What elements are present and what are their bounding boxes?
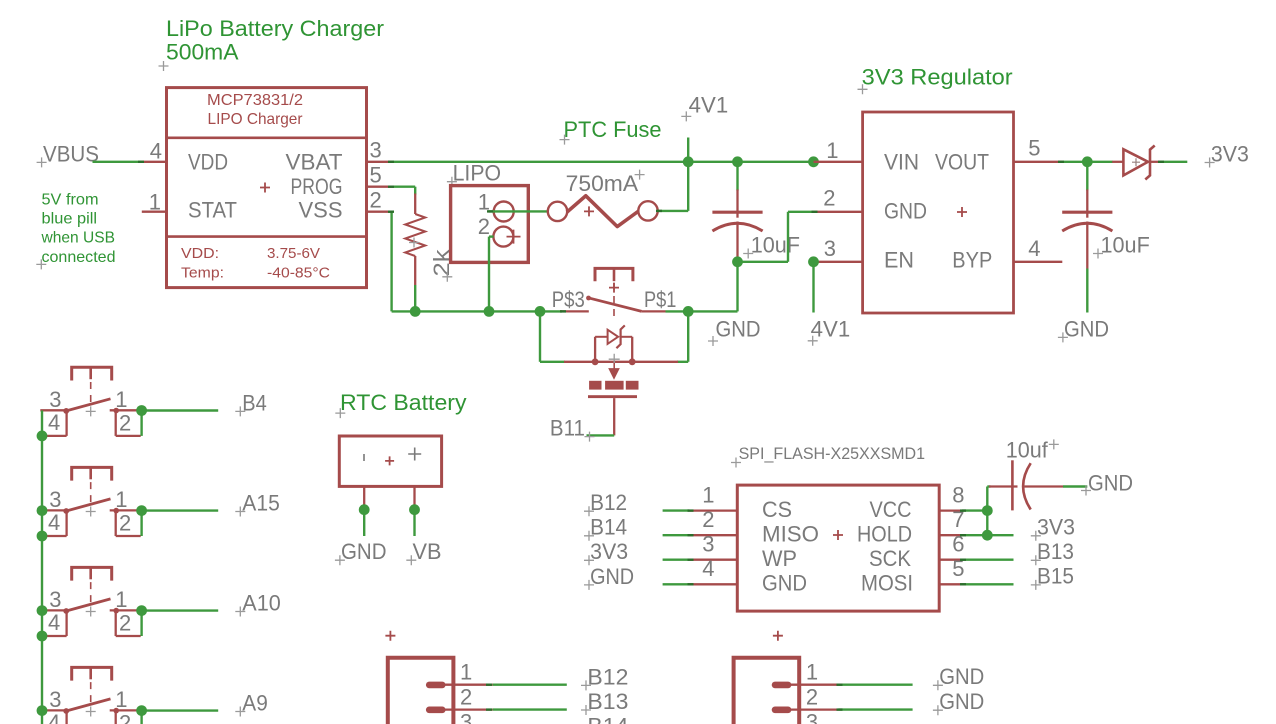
svg-text:P$3: P$3 bbox=[552, 287, 585, 312]
flash U3 box bbox=[737, 485, 939, 611]
resistor R1 2k bbox=[414, 194, 416, 215]
switch B4 pin 4 link bbox=[65, 410, 67, 436]
wire GND bus bbox=[390, 212, 392, 312]
node junction bus B4 pin4 bbox=[37, 431, 48, 442]
svg-text:GND: GND bbox=[939, 689, 984, 714]
svg-text:2: 2 bbox=[119, 710, 131, 724]
wire end marks (dark green connection points) bbox=[138, 161, 144, 163]
svg-text:VBUS: VBUS bbox=[43, 141, 99, 166]
BT1 pin leads bbox=[363, 486, 365, 505]
switch B4 dashed actuator bbox=[90, 382, 92, 406]
svg-text:GND: GND bbox=[884, 198, 927, 223]
node junction LIPO2/bus bbox=[484, 306, 495, 317]
svg-text:VB: VB bbox=[413, 539, 442, 564]
wire B14 to U3 pin 2 bbox=[663, 534, 690, 536]
U1 pin 5 PROG stub bbox=[367, 186, 392, 188]
op-amp-style IC U1 MCP73831/2 LIPO Charger box bbox=[167, 88, 367, 288]
svg-text:1: 1 bbox=[115, 587, 127, 612]
capacitor C2 plates bbox=[1062, 211, 1112, 214]
svg-text:2: 2 bbox=[460, 684, 472, 709]
switch A15 dashed actuator bbox=[90, 482, 92, 506]
U3 pin 5 stub bbox=[939, 583, 962, 585]
Q1 node dot left bbox=[592, 358, 599, 365]
wire BT1 VB pin down bbox=[413, 506, 415, 536]
svg-text:B13: B13 bbox=[1037, 539, 1074, 564]
node junction EN bbox=[808, 256, 819, 267]
svg-text:VDD: VDD bbox=[188, 149, 228, 174]
svg-text:VOUT: VOUT bbox=[935, 149, 989, 174]
U2 pin 3 EN stub bbox=[818, 261, 863, 263]
svg-text:2: 2 bbox=[478, 214, 490, 239]
svg-text:P$1: P$1 bbox=[644, 287, 676, 312]
wire HOLD pin7 to 3V3 label bbox=[962, 534, 1014, 536]
svg-text:1: 1 bbox=[806, 660, 818, 685]
svg-text:3: 3 bbox=[49, 387, 61, 412]
switch A10 lever bbox=[66, 599, 110, 611]
wire C2 to GND label bbox=[1086, 269, 1088, 313]
wire B4 pin1-pin2 tie bbox=[140, 411, 142, 436]
svg-text:BYP: BYP bbox=[952, 248, 992, 273]
svg-text:MOSI: MOSI bbox=[861, 571, 913, 596]
capacitor C3 curved plate bbox=[1023, 463, 1031, 509]
LIPO pin 2 circle bbox=[493, 227, 513, 247]
node junction B4 pin1 bbox=[136, 405, 147, 416]
connector box bbox=[388, 658, 454, 724]
switch A15 lever bbox=[66, 499, 110, 511]
Q1 substrate arrow bbox=[613, 363, 615, 369]
node junction BT1 VB pin bbox=[409, 504, 420, 515]
svg-text:EN: EN bbox=[884, 248, 914, 273]
svg-text:MCP73831/2: MCP73831/2 bbox=[207, 92, 303, 109]
U3 pin 7 stub bbox=[939, 534, 962, 536]
switch A15 origin cross bbox=[86, 507, 96, 517]
wire C1 bottom to GND corner bbox=[736, 258, 738, 311]
Q1 body diode zener bar bbox=[616, 325, 624, 348]
svg-text:3: 3 bbox=[370, 138, 382, 163]
svg-text:MISO: MISO bbox=[762, 521, 819, 546]
diode D1 cathode bar with hooks bbox=[1145, 146, 1154, 180]
node junction A15 pin1 bbox=[136, 505, 147, 516]
svg-text:GND: GND bbox=[1088, 471, 1133, 496]
svg-text:750mA: 750mA bbox=[566, 171, 639, 196]
svg-text:3V3: 3V3 bbox=[1211, 142, 1249, 167]
node junction A9 pin1 bbox=[136, 705, 147, 716]
svg-text:2: 2 bbox=[119, 410, 131, 435]
wire VCC node up to C3 bbox=[986, 487, 988, 511]
svg-text:B14: B14 bbox=[587, 714, 628, 724]
node junction bus A9 pin3 bbox=[37, 705, 48, 716]
node junction A10 pin1 bbox=[136, 605, 147, 616]
switch A9 pin 3 line bbox=[40, 709, 66, 711]
svg-text:2: 2 bbox=[119, 510, 131, 535]
wire LIPO pin2 down to GND bus bbox=[489, 235, 494, 237]
connector pin 2 stub bbox=[790, 708, 838, 710]
node junction bus A10 pin4 bbox=[37, 631, 48, 642]
switch A10 pin 1 line bbox=[110, 609, 141, 611]
node junction 4V1/C1 bbox=[732, 156, 743, 167]
regulator U2 box bbox=[863, 112, 1014, 313]
node junction P$1 bbox=[683, 306, 694, 317]
wire C3 to GND label bbox=[1063, 485, 1087, 487]
wire P$1 to junction bbox=[666, 310, 689, 312]
wire A15 pin1-pin2 tie bbox=[140, 511, 142, 536]
wire BT1 GND pin down bbox=[363, 506, 365, 536]
svg-text:-40-85°C: -40-85°C bbox=[267, 266, 330, 282]
connector pin 2 bar bbox=[775, 706, 788, 713]
Q1 origin cross bbox=[609, 354, 620, 365]
svg-text:1: 1 bbox=[702, 483, 714, 508]
BT1 plus symbol bbox=[408, 448, 421, 461]
wire P$3 drop to Q1 bbox=[539, 311, 541, 361]
svg-text:B4: B4 bbox=[242, 390, 266, 415]
svg-text:4V1: 4V1 bbox=[811, 317, 851, 342]
switch B4 pin 2 link bbox=[115, 410, 117, 436]
switch A9 bracket bbox=[72, 667, 112, 680]
diode D1 anode lead bbox=[1112, 161, 1123, 163]
wire SCK pin6 to B13 label bbox=[962, 559, 1014, 561]
connector pin 2 stub bbox=[445, 708, 493, 710]
fuse F1 left circle bbox=[548, 202, 567, 221]
connector pin 1 stub bbox=[790, 684, 838, 686]
svg-text:SCK: SCK bbox=[869, 546, 911, 571]
Q1 body diode loop bbox=[594, 337, 596, 362]
U1 pin 4 VDD stub bbox=[142, 161, 167, 163]
svg-text:A10: A10 bbox=[242, 591, 280, 616]
BT1 origin cross bbox=[385, 456, 394, 465]
switch S1 origin cross bbox=[609, 283, 619, 293]
wire to net label B12 bbox=[493, 684, 567, 686]
battery BT1 box bbox=[339, 436, 441, 486]
svg-text:blue pill: blue pill bbox=[42, 211, 98, 228]
switch A15 pin 1 line bbox=[110, 509, 141, 511]
node junction bus A15 pin4 bbox=[37, 531, 48, 542]
svg-text:4: 4 bbox=[150, 139, 162, 164]
node junction 4V1/fuse bbox=[683, 156, 694, 167]
wire A15 to label bbox=[142, 509, 219, 511]
Q1 gate plate bbox=[588, 395, 637, 398]
switch S1 lever bbox=[588, 298, 642, 312]
svg-text:Temp:: Temp: bbox=[181, 266, 224, 282]
U3 pin 3 stub bbox=[689, 559, 737, 561]
wire VBUS to U1 pin4 bbox=[93, 161, 142, 163]
svg-text:GND: GND bbox=[341, 539, 387, 564]
wire A10 pin1-pin2 tie bbox=[140, 611, 142, 636]
U3 pin 2 stub bbox=[689, 534, 737, 536]
svg-text:B15: B15 bbox=[1037, 564, 1074, 589]
wire MOSI pin5 to B15 label bbox=[962, 583, 1014, 585]
node junction 4V1/VIN bbox=[808, 156, 819, 167]
switch A10 pin 4 link bbox=[65, 610, 67, 636]
connector pin 1 bar bbox=[775, 682, 788, 689]
svg-text:LIPO: LIPO bbox=[453, 161, 502, 186]
node junction BT1 GND pin bbox=[359, 504, 370, 515]
svg-text:3: 3 bbox=[824, 236, 836, 261]
U2 pin 1 VIN stub bbox=[814, 161, 863, 163]
svg-text:VSS: VSS bbox=[299, 198, 343, 223]
wire to net label GND bbox=[838, 708, 912, 710]
svg-text:4V1: 4V1 bbox=[689, 93, 729, 118]
switch A9 pin 2 link bbox=[115, 710, 117, 724]
node junction R1/bus bbox=[410, 306, 421, 317]
U3 origin cross bbox=[833, 530, 843, 540]
connector LIPO box bbox=[451, 186, 529, 263]
svg-text:VIN: VIN bbox=[884, 149, 919, 174]
svg-text:3V3 Regulator: 3V3 Regulator bbox=[862, 64, 1013, 89]
U3 pin 4 stub bbox=[689, 583, 737, 585]
svg-text:B11: B11 bbox=[550, 415, 585, 440]
svg-text:1: 1 bbox=[460, 660, 472, 685]
wire D1 to 3V3 label bbox=[1161, 161, 1188, 163]
capacitor C2 10uF leads bbox=[1086, 162, 1088, 191]
net label 4V1 top bbox=[687, 138, 689, 162]
Q1 channel bars bbox=[589, 381, 601, 390]
diode D1 cathode lead bbox=[1151, 161, 1161, 163]
svg-text:4: 4 bbox=[702, 556, 714, 581]
node junction switch-drop/bus bbox=[535, 306, 546, 317]
svg-text:B13: B13 bbox=[587, 689, 628, 714]
node junction bus A10 pin3 bbox=[37, 605, 48, 616]
svg-text:SPI_FLASH-X25XXSMD1: SPI_FLASH-X25XXSMD1 bbox=[739, 445, 926, 463]
wire GND to U3 pin 4 bbox=[663, 583, 690, 585]
svg-text:10uF: 10uF bbox=[1101, 232, 1150, 257]
switch S1 bracket (button) bbox=[595, 268, 633, 281]
svg-text:VCC: VCC bbox=[870, 497, 912, 522]
svg-text:GND: GND bbox=[1064, 316, 1109, 341]
LIPO pin 2 origin cross bbox=[507, 230, 521, 244]
switch A15 pin 4 link bbox=[65, 510, 67, 536]
wire B4 to label bbox=[142, 409, 219, 411]
BT1 minus tick bbox=[363, 454, 365, 461]
svg-text:500mA: 500mA bbox=[166, 40, 239, 65]
svg-text:PTC Fuse: PTC Fuse bbox=[564, 117, 662, 142]
U2 origin cross bbox=[957, 207, 967, 217]
wire 4V1 rail from U1 VBAT to regulator VIN bbox=[392, 161, 814, 163]
svg-text:5V from: 5V from bbox=[42, 192, 99, 209]
svg-text:GND: GND bbox=[762, 571, 807, 596]
connector origin cross + bbox=[773, 631, 783, 641]
svg-text:3.75-6V: 3.75-6V bbox=[267, 246, 320, 262]
LIPO pin 1 circle bbox=[494, 202, 514, 222]
connector origin cross + bbox=[385, 631, 395, 641]
svg-text:STAT: STAT bbox=[188, 198, 237, 223]
svg-text:VBAT: VBAT bbox=[286, 149, 343, 174]
svg-text:2: 2 bbox=[119, 610, 131, 635]
switch A9 lever bbox=[66, 699, 110, 711]
svg-text:VDD:: VDD: bbox=[181, 246, 219, 262]
svg-text:2: 2 bbox=[370, 188, 382, 213]
svg-text:3: 3 bbox=[49, 487, 61, 512]
wire junction down to Q1 right bbox=[687, 311, 689, 361]
svg-text:10uF: 10uF bbox=[751, 232, 800, 257]
diode D1 origin cross bbox=[1132, 158, 1140, 166]
wire left switch bus bbox=[41, 411, 43, 724]
svg-text:2: 2 bbox=[823, 186, 835, 211]
connector pin 1 bar bbox=[429, 682, 442, 689]
U1 origin cross + bbox=[260, 183, 270, 193]
switch A15 pin 3 line bbox=[40, 509, 66, 511]
svg-text:2: 2 bbox=[702, 507, 714, 532]
wire node to diode D1 bbox=[1087, 161, 1112, 163]
switch A9 dashed actuator bbox=[90, 682, 92, 706]
switch B4 bracket bbox=[72, 367, 112, 380]
svg-text:4: 4 bbox=[48, 510, 60, 535]
wire R1 to GND bus bbox=[414, 285, 416, 311]
svg-text:GND: GND bbox=[716, 317, 761, 342]
svg-text:WP: WP bbox=[762, 546, 797, 571]
svg-text:3V3: 3V3 bbox=[1037, 515, 1075, 540]
svg-text:B14: B14 bbox=[590, 515, 627, 540]
wire A9 pin1-pin2 tie bbox=[140, 711, 142, 724]
U1 pin 2 VSS stub bbox=[367, 211, 392, 213]
svg-text:4: 4 bbox=[48, 710, 60, 724]
svg-text:5: 5 bbox=[1028, 136, 1040, 161]
U2 pin 5 VOUT stub bbox=[1014, 161, 1063, 163]
switch A9 origin cross bbox=[86, 707, 96, 717]
svg-text:A9: A9 bbox=[242, 691, 267, 716]
wire gate to B11 label bbox=[587, 434, 615, 436]
switch S1 pin P$1 stub bbox=[642, 310, 666, 312]
wire U3 VCC pin8 to node bbox=[962, 509, 987, 511]
svg-text:5: 5 bbox=[370, 163, 382, 188]
svg-text:A15: A15 bbox=[242, 491, 279, 516]
fuse F1 right circle bbox=[638, 201, 657, 220]
svg-text:4: 4 bbox=[48, 610, 60, 635]
U1 pin 1 STAT stub bbox=[142, 211, 167, 213]
node junction VOUT/C2 bbox=[1082, 156, 1093, 167]
U2 pin 4 BYP stub bbox=[1014, 261, 1063, 263]
wire LIPO pin1 to fuse bbox=[489, 210, 548, 212]
node junction C1 bottom bbox=[732, 256, 743, 267]
wire fuse to 4V1 rail bbox=[658, 210, 689, 212]
diode D1 triangle bbox=[1123, 149, 1148, 175]
wire 3V3 to U3 pin 3 bbox=[663, 559, 690, 561]
wire A9 to label bbox=[142, 709, 219, 711]
wire VOUT to node bbox=[1062, 161, 1087, 163]
svg-text:RTC Battery: RTC Battery bbox=[340, 390, 467, 415]
capacitor C1 10uF leads bbox=[736, 162, 738, 191]
svg-text:3V3: 3V3 bbox=[590, 539, 628, 564]
switch B4 origin cross bbox=[86, 406, 96, 416]
switch A9 pin 1 line bbox=[110, 709, 141, 711]
switch S1 pin P$3 stub bbox=[560, 310, 589, 312]
U2 pin 2 GND stub bbox=[814, 211, 863, 213]
svg-text:8: 8 bbox=[952, 483, 964, 508]
svg-text:LIPO Charger: LIPO Charger bbox=[208, 111, 304, 128]
svg-text:GND: GND bbox=[590, 564, 634, 589]
wire U1 PROG to resistor R1 bbox=[392, 185, 416, 187]
switch B4 pin 1 line bbox=[110, 409, 141, 411]
wire to net label B13 bbox=[493, 708, 567, 710]
svg-text:B12: B12 bbox=[587, 664, 628, 689]
U3 pin 8 stub bbox=[939, 509, 962, 511]
svg-text:3: 3 bbox=[806, 709, 818, 724]
switch A10 pin 2 link bbox=[115, 610, 117, 636]
svg-text:1: 1 bbox=[826, 138, 838, 163]
connector pin 1 stub bbox=[445, 684, 493, 686]
switch A15 pin 2 link bbox=[115, 510, 117, 536]
switch A10 bracket bbox=[72, 567, 112, 580]
node junction bus A15 pin3 bbox=[37, 505, 48, 516]
U3 pin 1 stub bbox=[689, 509, 737, 511]
switch B4 lever bbox=[66, 399, 110, 411]
svg-text:3: 3 bbox=[460, 709, 472, 724]
svg-text:HOLD: HOLD bbox=[857, 521, 912, 546]
fuse F1 origin cross bbox=[584, 206, 594, 216]
capacitor C3 left lead and plate bbox=[989, 485, 1018, 487]
svg-text:B12: B12 bbox=[590, 490, 627, 515]
switch A15 bracket bbox=[72, 467, 112, 480]
U1 pin 3 VBAT stub bbox=[367, 161, 392, 163]
wire VCC tie to HOLD bbox=[986, 511, 988, 536]
svg-text:4: 4 bbox=[48, 410, 60, 435]
svg-text:3: 3 bbox=[49, 587, 61, 612]
wire regulator GND pin2 path bbox=[738, 261, 789, 263]
svg-text:10uf: 10uf bbox=[1006, 437, 1049, 462]
switch A10 pin 3 line bbox=[40, 609, 66, 611]
net label 4V1 at EN bbox=[812, 262, 814, 313]
svg-text:1: 1 bbox=[149, 189, 161, 214]
svg-text:3: 3 bbox=[49, 687, 61, 712]
switch A9 pin 4 link bbox=[65, 710, 67, 724]
svg-text:4: 4 bbox=[1028, 236, 1040, 261]
node junction HOLD bbox=[982, 530, 993, 541]
capacitor C1 plates bbox=[712, 211, 762, 214]
switch A10 dashed actuator bbox=[90, 582, 92, 606]
Q1 gate lead bbox=[613, 398, 615, 435]
transistor Q1 source-drain line bbox=[564, 361, 678, 363]
wire B12 to U3 pin 1 bbox=[663, 509, 690, 511]
U3 pin 6 stub bbox=[939, 559, 962, 561]
svg-text:PROG: PROG bbox=[291, 174, 343, 199]
wire A10 to label bbox=[142, 609, 219, 611]
connector box bbox=[734, 658, 800, 724]
svg-text:3: 3 bbox=[702, 532, 714, 557]
svg-text:1: 1 bbox=[115, 687, 127, 712]
svg-text:2: 2 bbox=[806, 684, 818, 709]
svg-text:when USB: when USB bbox=[41, 230, 115, 247]
svg-text:LiPo Battery Charger: LiPo Battery Charger bbox=[166, 16, 384, 41]
Q1 node dot right bbox=[629, 358, 636, 365]
switch B4 pin 3 line bbox=[40, 409, 66, 411]
capacitor C3 right lead bbox=[1024, 485, 1063, 487]
connector pin 2 bar bbox=[429, 706, 442, 713]
svg-text:1: 1 bbox=[115, 487, 127, 512]
node junction VCC bbox=[982, 505, 993, 516]
svg-text:CS: CS bbox=[762, 497, 792, 522]
wire to net label GND bbox=[838, 684, 912, 686]
Q1 body diode triangle bbox=[608, 330, 619, 344]
switch S1 dashed actuator line bbox=[613, 283, 615, 316]
fuse F1 S-curve element bbox=[567, 196, 639, 227]
svg-text:1: 1 bbox=[115, 387, 127, 412]
svg-text:GND: GND bbox=[939, 664, 984, 689]
switch A10 origin cross bbox=[86, 607, 96, 617]
svg-text:connected: connected bbox=[42, 249, 116, 266]
